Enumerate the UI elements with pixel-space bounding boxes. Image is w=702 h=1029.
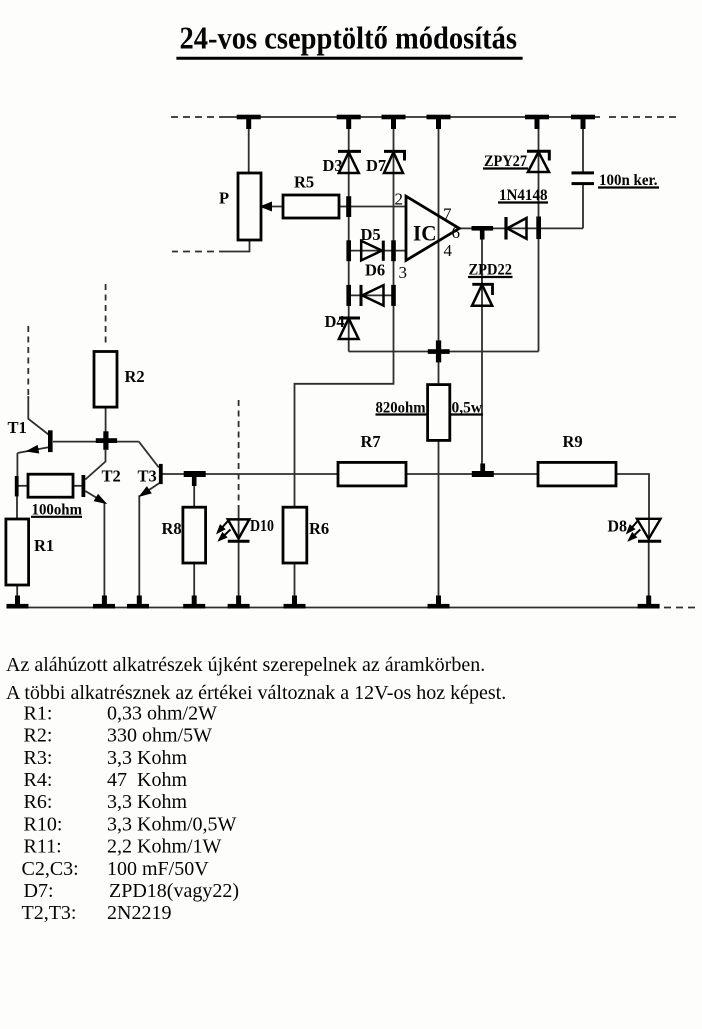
svg-text:R9: R9 — [563, 432, 583, 451]
svg-text:6: 6 — [452, 223, 461, 242]
svg-text:C2,C3:: C2,C3: — [22, 858, 79, 880]
svg-text:R7: R7 — [361, 432, 381, 451]
svg-text:R3:: R3: — [24, 747, 53, 769]
svg-text:Az aláhúzott alkatrészek újkén: Az aláhúzott alkatrészek újként szerepel… — [6, 654, 485, 676]
svg-text:R10:: R10: — [24, 813, 63, 835]
svg-text:47 Kohm: 47 Kohm — [107, 769, 187, 791]
svg-text:24-vos csepptöltő módosítás: 24-vos csepptöltő módosítás — [180, 21, 518, 56]
svg-text:R5: R5 — [294, 173, 314, 192]
svg-text:ZPD18(vagy22): ZPD18(vagy22) — [109, 880, 239, 902]
svg-text:3: 3 — [399, 263, 408, 282]
svg-text:7: 7 — [443, 205, 452, 224]
svg-text:T2: T2 — [102, 467, 121, 486]
svg-text:IC: IC — [413, 221, 437, 246]
svg-text:4: 4 — [444, 241, 453, 260]
svg-text:2,2 Kohm/1W: 2,2 Kohm/1W — [107, 836, 222, 858]
svg-text:D4: D4 — [325, 312, 345, 331]
svg-text:R8: R8 — [162, 519, 182, 538]
svg-text:R1:: R1: — [24, 702, 53, 724]
svg-text:R2:: R2: — [24, 725, 53, 747]
svg-text:R11:: R11: — [24, 836, 62, 858]
svg-text:3,3 Kohm: 3,3 Kohm — [107, 747, 187, 769]
svg-text:2: 2 — [395, 190, 404, 209]
svg-text:R6:: R6: — [24, 791, 53, 813]
svg-text:330 ohm/5W: 330 ohm/5W — [107, 725, 212, 747]
svg-text:D8: D8 — [608, 517, 628, 536]
svg-text:2N2219: 2N2219 — [107, 902, 171, 924]
svg-text:T3: T3 — [138, 467, 157, 486]
svg-text:D10: D10 — [250, 516, 274, 535]
svg-text:3,3 Kohm/0,5W: 3,3 Kohm/0,5W — [107, 813, 237, 835]
svg-text:100 mF/50V: 100 mF/50V — [107, 858, 209, 880]
svg-text:0,33 ohm/2W: 0,33 ohm/2W — [107, 702, 217, 724]
svg-text:R4:: R4: — [24, 769, 53, 791]
svg-text:D7:: D7: — [24, 880, 54, 902]
svg-text:R1: R1 — [34, 536, 54, 555]
svg-text:3,3 Kohm: 3,3 Kohm — [107, 791, 187, 813]
svg-text:A többi alkatrésznek az értéke: A többi alkatrésznek az értékei változna… — [6, 682, 506, 704]
svg-text:D5: D5 — [361, 225, 381, 244]
svg-text:R2: R2 — [125, 367, 145, 386]
svg-text:R6: R6 — [309, 519, 329, 538]
svg-text:D3: D3 — [323, 156, 343, 175]
svg-text:T1: T1 — [8, 418, 27, 437]
svg-text:ZPD22: ZPD22 — [469, 261, 513, 278]
svg-text:D6: D6 — [365, 261, 385, 280]
svg-text:T2,T3:: T2,T3: — [22, 902, 77, 924]
svg-text:P: P — [219, 189, 229, 208]
svg-text:D7: D7 — [366, 156, 386, 175]
